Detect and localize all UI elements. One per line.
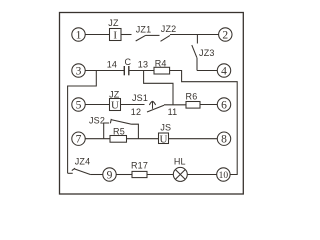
svg-text:JS1: JS1 [132,93,148,103]
wire [197,70,217,72]
wire [147,174,173,176]
terminal 9 [103,168,116,181]
terminal 3 [72,64,85,77]
wire [85,70,124,72]
svg-text:JZ3: JZ3 [199,48,215,58]
terminal 2 [219,28,232,41]
wire node 13 to node 11 [144,71,173,105]
relay coil JZ (I) U1 [110,29,122,41]
wire [85,34,109,36]
svg-text:JZ1: JZ1 [136,24,152,34]
wire [90,174,103,176]
wire [127,138,159,140]
wire [200,104,217,106]
svg-text:R6: R6 [186,91,198,101]
wire [146,34,160,36]
svg-text:I: I [113,30,117,42]
terminal 6 [217,98,230,111]
svg-text:JZ2: JZ2 [161,24,177,34]
svg-text:9: 9 [107,170,113,182]
svg-text:R5: R5 [113,126,125,136]
resistor R4 [154,67,170,74]
svg-text:C: C [125,57,132,67]
svg-text:14: 14 [107,59,117,69]
svg-text:8: 8 [221,134,227,146]
wire [116,174,132,176]
terminal 7 [72,132,85,145]
svg-text:6: 6 [221,100,227,112]
svg-text:JS2: JS2 [89,116,105,126]
svg-text:R17: R17 [131,161,148,171]
resistor R17 [132,171,147,177]
svg-text:7: 7 [76,134,82,146]
resistor R5 [110,136,127,143]
svg-text:U: U [160,133,168,145]
wire [129,70,154,72]
relay coil JS (U) U3 [159,133,169,144]
terminal 4 [217,64,230,77]
wire junction to JZ4 branch [68,71,97,174]
svg-text:R4: R4 [155,59,167,69]
terminal 8 [217,132,230,145]
wire [164,104,186,106]
svg-text:JZ: JZ [108,18,119,28]
terminal 1 [72,28,85,41]
wire [85,104,109,106]
wire [187,174,216,176]
svg-text:12: 12 [131,107,141,117]
wire R4 to terminal 10 rail [170,71,238,175]
capacitor C [124,66,129,75]
contact JZ3 [192,35,198,71]
wire [170,34,219,36]
wire [85,138,110,140]
relay coil JZ (U) U2 [110,99,121,111]
svg-text:2: 2 [222,30,228,42]
svg-text:HL: HL [174,156,186,166]
lamp HL [173,167,187,181]
svg-text:3: 3 [76,66,82,78]
time-delay contact JS1 [147,101,164,112]
wire [169,138,218,140]
terminal 5 [72,98,85,111]
resistor R6 [186,102,200,109]
svg-text:JZ4: JZ4 [75,156,91,166]
svg-text:4: 4 [221,66,227,78]
contact JZ1 [136,35,146,41]
wire [121,34,132,36]
svg-text:5: 5 [76,100,82,112]
wire [121,104,145,106]
svg-text:10: 10 [219,171,229,181]
contact JS2 bypass branch [104,119,139,139]
svg-text:1: 1 [76,30,82,42]
contact JZ2 [161,35,171,41]
terminal 10 [217,168,230,181]
svg-text:13: 13 [138,60,148,70]
svg-text:11: 11 [168,107,178,117]
svg-text:JS: JS [160,122,171,132]
contact JZ4 [68,168,91,174]
svg-text:JZ: JZ [109,89,120,99]
svg-text:U: U [111,100,119,112]
